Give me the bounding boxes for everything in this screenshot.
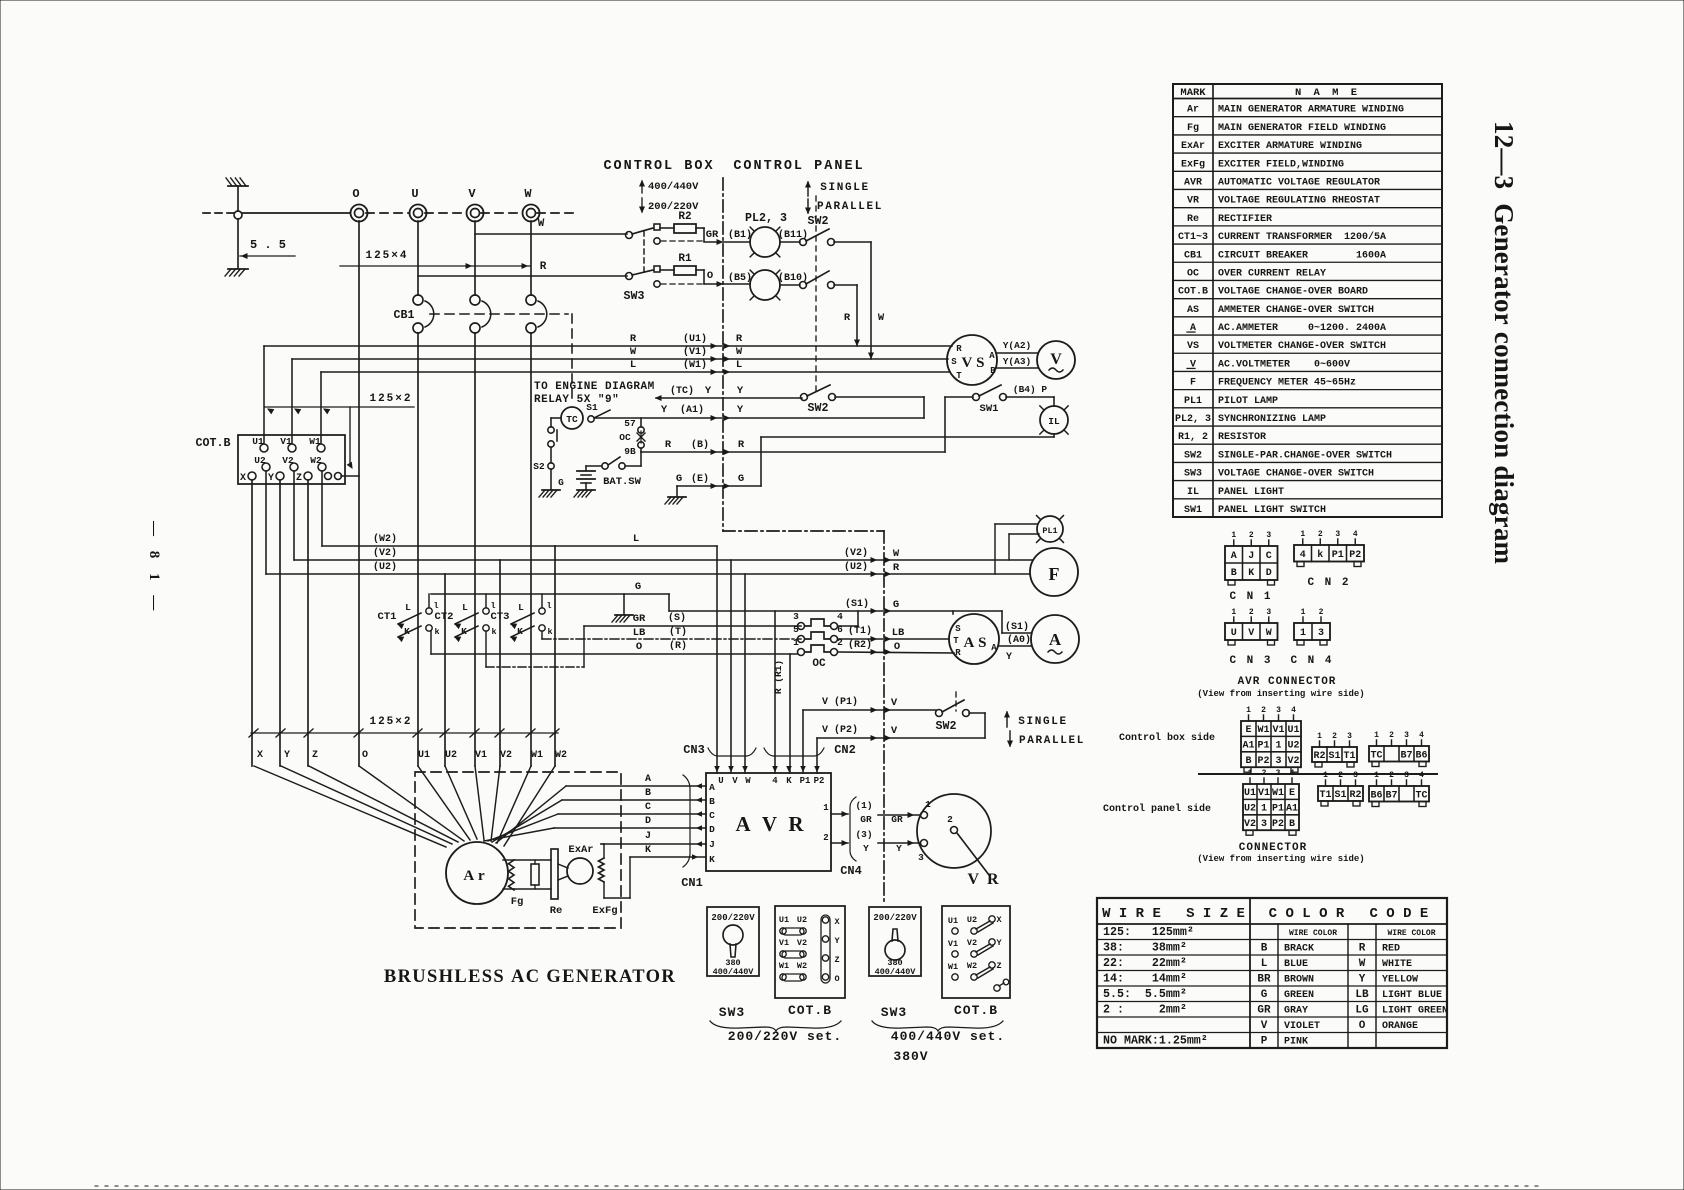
svg-text:V: V bbox=[891, 697, 898, 709]
svg-text:AVR CONNECTOR: AVR CONNECTOR bbox=[1238, 676, 1337, 688]
svg-text:E: E bbox=[1289, 788, 1295, 799]
svg-text:ExFg: ExFg bbox=[592, 905, 617, 917]
svg-text:F: F bbox=[1049, 564, 1060, 584]
svg-text:2: 2 bbox=[1332, 732, 1337, 741]
switch SW3 bbox=[624, 224, 702, 303]
node label W1 bbox=[531, 750, 543, 761]
svg-text:2: 2 bbox=[947, 814, 953, 825]
svg-text:W1: W1 bbox=[1272, 788, 1284, 799]
svg-text:W: W bbox=[524, 187, 532, 201]
svg-text:BRACK: BRACK bbox=[1284, 944, 1314, 955]
svg-text:R: R bbox=[738, 439, 745, 451]
svg-text:(V2): (V2) bbox=[844, 547, 868, 559]
svg-text:W: W bbox=[538, 218, 545, 230]
wire W2 drop and bus (W2) L bbox=[322, 471, 717, 546]
svg-text:U2: U2 bbox=[445, 750, 457, 761]
wire generator C bbox=[488, 802, 706, 841]
lamp PL1 bbox=[1037, 516, 1064, 543]
svg-text:CN4: CN4 bbox=[840, 864, 862, 878]
label CONNECTOR bbox=[1197, 842, 1364, 864]
svg-text:A1: A1 bbox=[1242, 741, 1254, 752]
coil TC bbox=[561, 407, 583, 429]
label AVR CONNECTOR bbox=[1197, 676, 1364, 699]
svg-text:2: 2 bbox=[1249, 531, 1254, 540]
label CONTROL BOX bbox=[603, 159, 714, 174]
label Control panel side bbox=[1103, 803, 1211, 815]
svg-text:OC: OC bbox=[1187, 268, 1199, 279]
svg-text:(B4) P: (B4) P bbox=[1013, 384, 1048, 395]
svg-text:W: W bbox=[736, 346, 743, 358]
svg-text:3: 3 bbox=[1261, 819, 1267, 830]
svg-text:P: P bbox=[1261, 1036, 1268, 1048]
svg-text:CN3: CN3 bbox=[683, 743, 705, 757]
label Control box side bbox=[1119, 732, 1215, 744]
wire W2 fan vertical bbox=[554, 546, 556, 766]
svg-text:125: 125mm²: 125: 125mm² bbox=[1103, 926, 1194, 939]
pin AVR J left bbox=[709, 839, 715, 850]
svg-text:1: 1 bbox=[1231, 531, 1236, 540]
svg-text:OVER CURRENT RELAY: OVER CURRENT RELAY bbox=[1218, 268, 1326, 279]
svg-text:U: U bbox=[718, 776, 723, 786]
svg-text:W: W bbox=[630, 346, 637, 358]
svg-text:125×2: 125×2 bbox=[369, 393, 412, 405]
svg-text:EXCITER FIELD,WINDING: EXCITER FIELD,WINDING bbox=[1218, 159, 1344, 170]
wire Y to VR bbox=[855, 829, 920, 854]
label (B11) bbox=[778, 229, 808, 241]
svg-text:W1: W1 bbox=[309, 436, 321, 447]
svg-text:Re: Re bbox=[1187, 214, 1199, 225]
frequency meter F bbox=[1030, 548, 1078, 596]
svg-text:V1: V1 bbox=[779, 938, 789, 948]
svg-text:W I R E S I Z E: W I R E S I Z E bbox=[1102, 906, 1245, 922]
field winding Fg bbox=[503, 860, 551, 908]
svg-text:U1: U1 bbox=[252, 436, 264, 447]
switch AS meter bbox=[949, 611, 999, 664]
wire pin arrow bbox=[801, 767, 805, 772]
svg-text:O: O bbox=[362, 750, 368, 761]
svg-text:U1: U1 bbox=[1244, 788, 1256, 799]
wire G (E) bbox=[676, 473, 761, 496]
svg-text:l: l bbox=[546, 601, 551, 611]
svg-text:VR: VR bbox=[1187, 196, 1199, 207]
wire CT3 l to G bus bbox=[541, 594, 543, 608]
svg-text:B: B bbox=[1261, 943, 1268, 955]
svg-text:X: X bbox=[257, 750, 263, 761]
svg-text:S: S bbox=[951, 357, 957, 367]
wire AS-A link A0 bbox=[998, 634, 1031, 663]
svg-text:A: A bbox=[989, 351, 995, 361]
wire V (P1) bbox=[803, 696, 936, 773]
svg-text:N A M E: N A M E bbox=[1295, 87, 1360, 99]
circuit breaker CB1 bbox=[394, 295, 547, 333]
pin AVR 1 right bbox=[823, 803, 848, 816]
svg-text:SINGLE: SINGLE bbox=[820, 182, 870, 194]
svg-text:CT2: CT2 bbox=[435, 611, 454, 623]
svg-text:(TC): (TC) bbox=[670, 385, 694, 397]
terminal W bbox=[523, 187, 540, 222]
wire U1 vertical bbox=[417, 221, 419, 766]
svg-text:3: 3 bbox=[918, 852, 924, 863]
svg-text:U2: U2 bbox=[1244, 804, 1256, 815]
node label V2 bbox=[500, 750, 512, 761]
svg-text:K: K bbox=[404, 626, 410, 637]
svg-text:X: X bbox=[834, 917, 840, 927]
svg-text:TC: TC bbox=[566, 414, 578, 425]
current transformer CT1 bbox=[378, 601, 440, 641]
label (V2)(U2) left bbox=[373, 547, 397, 573]
pin AVR A left bbox=[709, 782, 715, 793]
svg-text:D: D bbox=[1266, 568, 1272, 579]
svg-text:L: L bbox=[736, 359, 742, 371]
svg-text:MARK: MARK bbox=[1180, 87, 1206, 99]
wire AS-A link S1 bbox=[1005, 621, 1029, 633]
svg-text:(R): (R) bbox=[669, 640, 687, 652]
svg-text:200/220V set.: 200/220V set. bbox=[728, 1029, 842, 1044]
switch SW2 bottom bbox=[936, 700, 986, 738]
svg-text:L: L bbox=[633, 533, 639, 545]
switch diagram SW3 400V bbox=[869, 907, 921, 1020]
resistor R2 bbox=[660, 211, 704, 241]
svg-text:2: 2 bbox=[1261, 706, 1266, 715]
node label W2 bbox=[555, 750, 567, 761]
svg-text:1: 1 bbox=[793, 637, 799, 648]
svg-text:J: J bbox=[645, 831, 651, 842]
wire GR lamp feed bbox=[704, 229, 752, 244]
label 400/440V up bbox=[640, 181, 699, 193]
svg-text:CONNECTOR: CONNECTOR bbox=[1239, 842, 1307, 854]
node label Z bbox=[312, 750, 318, 761]
svg-text:W2: W2 bbox=[797, 961, 807, 971]
svg-text:NO MARK:1.25mm²: NO MARK:1.25mm² bbox=[1103, 1035, 1208, 1048]
svg-text:(B5): (B5) bbox=[728, 272, 752, 284]
svg-text:U2: U2 bbox=[254, 455, 266, 466]
lamp PL3 bbox=[750, 270, 808, 300]
svg-text:C O L O R C O D E: C O L O R C O D E bbox=[1269, 906, 1429, 922]
node (bus earth tap) bbox=[234, 211, 242, 219]
wire generator J bbox=[601, 831, 706, 846]
svg-text:3: 3 bbox=[1276, 769, 1281, 778]
svg-text:CONTROL BOX: CONTROL BOX bbox=[603, 159, 714, 174]
svg-text:YELLOW: YELLOW bbox=[1382, 975, 1418, 986]
wire G (S1) line bbox=[669, 598, 1031, 633]
svg-text:SW2: SW2 bbox=[936, 720, 957, 733]
svg-text:K: K bbox=[1248, 568, 1254, 579]
node label Y bbox=[284, 750, 290, 761]
page bottom dotted line bbox=[95, 1185, 1545, 1187]
svg-text:W2: W2 bbox=[967, 961, 977, 971]
svg-text:(U1): (U1) bbox=[683, 333, 707, 345]
label CONTROL PANEL bbox=[733, 159, 864, 174]
svg-text:(T): (T) bbox=[669, 626, 687, 638]
node label U1 bbox=[418, 750, 430, 761]
svg-text:3: 3 bbox=[1404, 731, 1409, 740]
svg-text:R: R bbox=[1359, 943, 1366, 955]
svg-text:CT1~3: CT1~3 bbox=[1178, 232, 1208, 243]
svg-text:3: 3 bbox=[1266, 531, 1271, 540]
wire W1 vertical bbox=[530, 221, 532, 766]
svg-text:A: A bbox=[709, 782, 715, 793]
terminal O bbox=[351, 187, 368, 222]
contact S2 chain bbox=[533, 418, 564, 489]
svg-text:SYNCHRONIZING LAMP: SYNCHRONIZING LAMP bbox=[1218, 414, 1326, 425]
svg-text:U1: U1 bbox=[779, 915, 789, 925]
connector CN3 bracket bbox=[683, 743, 756, 757]
svg-text:VOLTAGE CHANGE-OVER BOARD: VOLTAGE CHANGE-OVER BOARD bbox=[1218, 287, 1368, 298]
svg-text:(S): (S) bbox=[668, 612, 686, 624]
label 125x2 dimension lower bbox=[249, 716, 559, 737]
svg-text:380V: 380V bbox=[893, 1049, 928, 1064]
svg-text:4: 4 bbox=[1419, 771, 1424, 780]
wire V2 fan vertical bbox=[499, 560, 501, 766]
svg-text:VOLTAGE REGULATING RHEOSTAT: VOLTAGE REGULATING RHEOSTAT bbox=[1218, 196, 1380, 207]
svg-text:BRUSHLESS AC GENERATOR: BRUSHLESS AC GENERATOR bbox=[384, 967, 676, 987]
node label X bbox=[257, 750, 263, 761]
svg-text:1: 1 bbox=[1374, 731, 1379, 740]
svg-text:COT.B: COT.B bbox=[1178, 287, 1208, 298]
svg-text:125×4: 125×4 bbox=[365, 250, 408, 262]
svg-text:COT.B: COT.B bbox=[788, 1003, 832, 1018]
svg-text:B7: B7 bbox=[1400, 750, 1412, 761]
table MARK/NAME bbox=[1173, 84, 1442, 517]
connector control box 12pin bbox=[1241, 706, 1301, 772]
svg-text:V1: V1 bbox=[1272, 725, 1284, 736]
title 12-3 Generator connection diagram bbox=[1489, 121, 1519, 565]
svg-text:V: V bbox=[891, 725, 898, 737]
svg-text:V: V bbox=[1261, 1020, 1268, 1032]
svg-text:GR: GR bbox=[1257, 1005, 1271, 1017]
svg-text:K: K bbox=[709, 854, 715, 865]
wire generator A bbox=[496, 774, 706, 843]
wire U2 drop and bus (U2) R bbox=[266, 471, 1030, 576]
wire bus L (W1) bbox=[321, 359, 950, 443]
ground G(E) bbox=[665, 497, 686, 504]
svg-text:B: B bbox=[645, 788, 651, 799]
label COT.B bbox=[196, 437, 231, 450]
pin AVR W bbox=[745, 776, 751, 786]
svg-text:R1, 2: R1, 2 bbox=[1178, 432, 1208, 443]
svg-text:3: 3 bbox=[1276, 706, 1281, 715]
svg-text:400/440V: 400/440V bbox=[713, 967, 755, 977]
svg-text:3: 3 bbox=[1335, 530, 1340, 539]
node label O bbox=[362, 750, 368, 761]
wire pin arrow bbox=[715, 767, 719, 772]
svg-text:C: C bbox=[1266, 551, 1272, 562]
boundary control box/panel dash-dot bbox=[723, 178, 884, 903]
svg-text:V2: V2 bbox=[1244, 819, 1256, 830]
ammeter A bbox=[1031, 615, 1079, 663]
svg-text:P1: P1 bbox=[1272, 804, 1284, 815]
svg-text:k: k bbox=[434, 627, 439, 637]
svg-text:P1: P1 bbox=[800, 776, 811, 786]
wire Y (A1) bbox=[595, 404, 924, 420]
svg-text:2: 2 bbox=[823, 833, 828, 843]
svg-text:S1: S1 bbox=[586, 402, 598, 413]
svg-text:Z: Z bbox=[296, 473, 302, 484]
svg-text:Y: Y bbox=[996, 938, 1002, 948]
svg-text:K: K bbox=[786, 776, 792, 786]
wire O (R2) to AS bbox=[838, 639, 954, 654]
svg-text:L: L bbox=[630, 359, 636, 371]
wire Y vertical bbox=[279, 480, 281, 766]
svg-text:G: G bbox=[738, 473, 744, 485]
svg-text:O: O bbox=[1359, 1020, 1366, 1032]
svg-text:3: 3 bbox=[1318, 628, 1324, 639]
svg-text:A: A bbox=[1049, 630, 1062, 649]
svg-text:R2: R2 bbox=[678, 211, 691, 223]
svg-text:U2: U2 bbox=[1287, 741, 1299, 752]
svg-text:Y: Y bbox=[737, 385, 744, 397]
svg-text:4: 4 bbox=[772, 776, 778, 786]
exciter field ExFg bbox=[592, 844, 630, 917]
svg-text:PINK: PINK bbox=[1284, 1037, 1308, 1048]
svg-text:2: 2 bbox=[1338, 771, 1343, 780]
svg-text:R: R bbox=[736, 333, 743, 345]
pin AVR K bbox=[786, 776, 792, 786]
wire O lamp feed bbox=[704, 270, 752, 286]
svg-text:1: 1 bbox=[823, 803, 829, 813]
svg-text:WIRE COLOR: WIRE COLOR bbox=[1387, 929, 1435, 938]
svg-text:U1: U1 bbox=[418, 750, 430, 761]
svg-text:9B: 9B bbox=[624, 446, 636, 457]
svg-text:T1: T1 bbox=[1319, 790, 1331, 801]
svg-text:LB: LB bbox=[892, 627, 905, 639]
svg-text:Fg: Fg bbox=[511, 896, 524, 908]
svg-text:(B1): (B1) bbox=[728, 229, 752, 241]
wire pin arrow bbox=[815, 767, 819, 772]
svg-text:Y(A2): Y(A2) bbox=[1003, 340, 1032, 351]
svg-text:3: 3 bbox=[1275, 756, 1281, 767]
wire PL1 to W line bbox=[1009, 534, 1039, 560]
svg-text:3: 3 bbox=[793, 611, 799, 622]
wire V (P2) bbox=[817, 724, 985, 773]
svg-text:1: 1 bbox=[1248, 769, 1253, 778]
wire GR to VR bbox=[855, 800, 920, 825]
svg-text:1: 1 bbox=[1323, 771, 1328, 780]
svg-text:1: 1 bbox=[925, 799, 931, 810]
svg-text:A S: A S bbox=[964, 635, 987, 651]
svg-text:O: O bbox=[636, 641, 642, 653]
svg-text:Y: Y bbox=[268, 473, 274, 484]
svg-text:K: K bbox=[461, 626, 467, 637]
svg-text:2: 2 bbox=[1262, 769, 1267, 778]
svg-text:(A0): (A0) bbox=[1007, 634, 1031, 646]
svg-text:ExFg: ExFg bbox=[1181, 159, 1205, 170]
svg-text:RESISTOR: RESISTOR bbox=[1218, 432, 1266, 443]
wire SW1 feed bbox=[945, 397, 973, 452]
svg-text:BLUE: BLUE bbox=[1284, 959, 1308, 970]
svg-text:CB1: CB1 bbox=[394, 309, 415, 322]
svg-text:B6: B6 bbox=[1415, 750, 1427, 761]
svg-text:(V1): (V1) bbox=[683, 346, 707, 358]
svg-text:5.5: 5.5mm²: 5.5: 5.5mm² bbox=[1103, 988, 1187, 1001]
svg-text:S2: S2 bbox=[533, 461, 545, 472]
svg-text:CN1: CN1 bbox=[681, 876, 703, 890]
svg-text:W1: W1 bbox=[948, 962, 958, 972]
svg-text:38: 38mm²: 38: 38mm² bbox=[1103, 942, 1187, 955]
svg-text:B: B bbox=[1231, 568, 1237, 579]
svg-text:C N 4: C N 4 bbox=[1290, 655, 1333, 667]
brace 400/440V set bbox=[872, 1021, 1005, 1064]
svg-text:Y: Y bbox=[705, 385, 712, 397]
svg-text:S1: S1 bbox=[1328, 751, 1340, 762]
svg-text:T1: T1 bbox=[1343, 751, 1355, 762]
wire generator K bbox=[630, 845, 706, 859]
connector CN2 diagram bbox=[1294, 530, 1364, 589]
svg-text:Re: Re bbox=[550, 905, 563, 917]
svg-text:2: 2 bbox=[1389, 731, 1394, 740]
label PARALLEL bottom bbox=[1008, 731, 1085, 747]
svg-text:R: R bbox=[665, 439, 672, 451]
wire generator D bbox=[484, 816, 706, 841]
board diagram COT.B 400V bbox=[942, 906, 1010, 1018]
label 125x4 dimension bbox=[340, 250, 530, 268]
svg-text:CT3: CT3 bbox=[491, 611, 510, 623]
wire CT l-bus G bbox=[431, 581, 669, 614]
svg-text:V: V bbox=[1050, 351, 1062, 368]
svg-text:PILOT LAMP: PILOT LAMP bbox=[1218, 396, 1278, 407]
svg-text:(W2): (W2) bbox=[373, 533, 397, 545]
svg-text:V R: V R bbox=[967, 871, 1000, 888]
regulator AVR box bbox=[706, 773, 831, 871]
connector CN2 bracket bbox=[764, 743, 856, 757]
wire CB1 gang dashed bbox=[430, 314, 572, 404]
svg-text:Control panel side: Control panel side bbox=[1103, 803, 1211, 815]
svg-text:2: 2 bbox=[1249, 608, 1254, 617]
separator connectors bbox=[1199, 773, 1437, 775]
wire Z vertical bbox=[307, 480, 309, 766]
note TO ENGINE DIAGRAM bbox=[534, 381, 655, 406]
svg-text:1: 1 bbox=[1275, 741, 1281, 752]
svg-text:V1: V1 bbox=[280, 436, 292, 447]
svg-text:CB1: CB1 bbox=[1184, 250, 1202, 261]
svg-text:ExAr: ExAr bbox=[568, 844, 593, 856]
label PARALLEL down bbox=[806, 199, 883, 213]
wire CT2 l to G bus bbox=[485, 594, 487, 608]
svg-text:W1: W1 bbox=[1257, 725, 1269, 736]
svg-text:P2: P2 bbox=[1349, 550, 1361, 561]
svg-text:EXCITER ARMATURE WINDING: EXCITER ARMATURE WINDING bbox=[1218, 141, 1362, 152]
svg-text:C N 1: C N 1 bbox=[1229, 591, 1272, 603]
switch VS meter bbox=[947, 335, 997, 385]
svg-text:K: K bbox=[645, 845, 651, 856]
svg-text:125×2: 125×2 bbox=[369, 716, 412, 728]
connector control box 4pin bbox=[1369, 731, 1429, 767]
svg-text:D: D bbox=[709, 824, 715, 835]
wire R (R1) to AVR K bbox=[773, 654, 790, 773]
svg-text:4: 4 bbox=[837, 611, 843, 622]
current transformer CT3 bbox=[491, 601, 553, 641]
switch SW2 mid bbox=[801, 385, 925, 418]
svg-text:LIGHT GREEN: LIGHT GREEN bbox=[1382, 1006, 1448, 1017]
svg-text:14: 14mm²: 14: 14mm² bbox=[1103, 973, 1187, 986]
svg-text:V S: V S bbox=[962, 355, 985, 371]
svg-text:k: k bbox=[547, 627, 552, 637]
connector CN4 diagram bbox=[1290, 608, 1333, 667]
svg-text:(B): (B) bbox=[691, 439, 709, 451]
svg-text:S1: S1 bbox=[1334, 790, 1346, 801]
brush block bbox=[531, 860, 539, 889]
svg-text:V: V bbox=[1248, 628, 1254, 639]
svg-text:U2: U2 bbox=[797, 915, 807, 925]
wire LB (T) from CT3 bbox=[542, 626, 801, 639]
svg-text:LIGHT BLUE: LIGHT BLUE bbox=[1382, 990, 1442, 1001]
node label U2 bbox=[445, 750, 457, 761]
wire (TC) Y bbox=[656, 385, 802, 400]
label SINGLE up bbox=[806, 182, 870, 196]
svg-text:PL1: PL1 bbox=[1184, 396, 1202, 407]
wire V1 vertical bbox=[474, 221, 476, 766]
armature Ar bbox=[446, 842, 508, 904]
